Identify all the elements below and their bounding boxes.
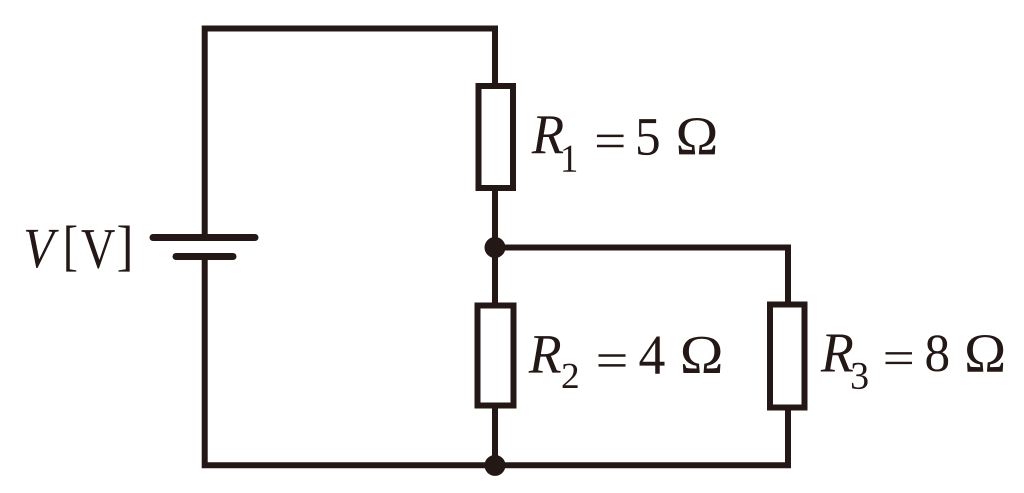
wire: node A across to R3 top	[495, 248, 788, 305]
wire: R2 bottom to bottom rail	[492, 405, 498, 466]
node A junction dot	[485, 237, 506, 258]
resistor R2 body	[478, 306, 514, 406]
label R2 = 4 ohm	[529, 336, 721, 388]
resistor R3 body	[770, 305, 805, 408]
battery V: short negative plate	[176, 253, 233, 260]
resistor R1 body	[479, 86, 514, 188]
label R3 = 8 ohm	[821, 335, 1004, 390]
node B junction dot (bottom rail)	[485, 455, 506, 476]
label R1 = 5 ohm	[532, 116, 716, 171]
label V[V]	[26, 226, 130, 272]
wire: battery bottom to bottom-left corner, bottom rail, riser to R3 bottom	[205, 255, 788, 465]
wire: R1 bottom through node A down to R2 top	[492, 188, 498, 306]
battery V: long positive plate	[153, 234, 255, 241]
wire: top loop from battery top plate up, across, down to R1	[205, 29, 495, 239]
